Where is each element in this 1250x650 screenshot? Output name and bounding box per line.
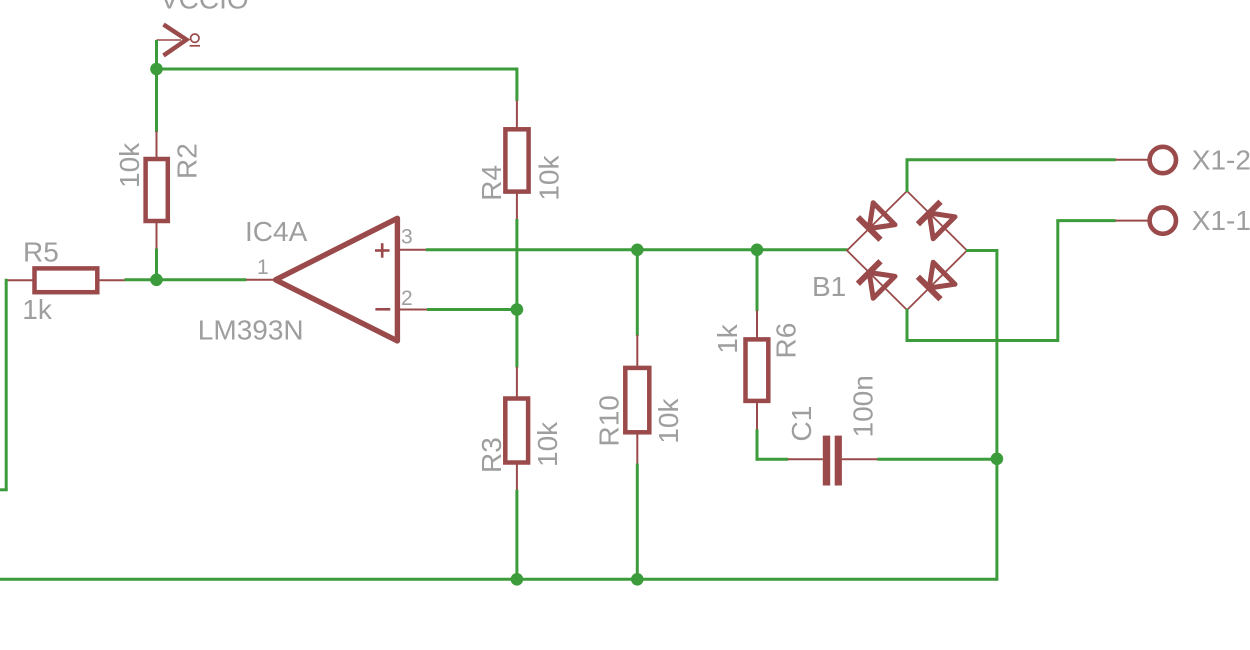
wire C1 right to right vertical: [877, 458, 997, 461]
svg-text:1k: 1k: [712, 323, 743, 354]
wire R4 bottom to junction: [515, 219, 518, 311]
wire bridge right corner: [966, 249, 997, 252]
net VCCIO label: [160, 0, 249, 15]
wire junction to opamp pin1: [155, 278, 247, 281]
diode B1 bottom-right: [918, 262, 955, 299]
label 1k (R6): [712, 323, 743, 354]
wire R5 left down: [5, 279, 8, 490]
label R2: [171, 143, 202, 179]
pin number 1: [257, 256, 269, 279]
resistor R6: [746, 310, 769, 429]
resistor R3: [505, 367, 528, 490]
svg-text:B1: B1: [812, 271, 846, 302]
junction pin3/R6: [751, 244, 764, 257]
label 10k (R10): [653, 398, 684, 444]
junction at VCC/R2: [150, 63, 163, 76]
label 10k (R4): [534, 155, 565, 201]
diode B1 top-right: [918, 202, 955, 239]
wire R10 bottom to rail: [636, 464, 639, 581]
wire right vertical down to rail: [995, 249, 998, 581]
svg-text:C1: C1: [786, 406, 817, 442]
label X1-1: [1192, 205, 1250, 236]
wire opamp pin2 net: [427, 308, 518, 311]
diode B1 bottom-left: [858, 261, 895, 298]
junction C1 net / right vertical: [991, 453, 1004, 466]
wire R6 bottom to C1: [756, 429, 789, 461]
svg-text:VCCIO: VCCIO: [160, 0, 249, 15]
connector pad X1-1: [1115, 207, 1176, 233]
label X1-2: [1192, 145, 1250, 176]
pin number 3: [401, 226, 413, 249]
diode B1 top-left: [858, 203, 895, 240]
svg-text:R2: R2: [171, 143, 202, 179]
svg-text:10k: 10k: [534, 155, 565, 201]
capacitor C1: [788, 436, 878, 486]
op-amp IC4A LM393N: [246, 218, 428, 341]
label R3: [476, 437, 507, 473]
connector pad X1-2: [1115, 147, 1176, 173]
junction pin3/R10: [631, 244, 644, 257]
label R10: [594, 395, 625, 446]
resistor R5: [5, 268, 125, 292]
junction pin2/R4/R3: [511, 303, 524, 316]
svg-text:R3: R3: [476, 437, 507, 473]
wire VCC down to R4 top: [515, 68, 518, 102]
label 1k (R5): [22, 294, 53, 325]
pin number 2: [401, 287, 413, 310]
label LM393N: [198, 315, 304, 346]
label C1: [786, 406, 817, 442]
label R6: [770, 323, 801, 359]
bridge rectifier B1 diamond: [847, 191, 967, 310]
supply symbol VCCIO: [157, 25, 201, 56]
wire R2 bottom to junction: [155, 249, 158, 282]
svg-text:10k: 10k: [653, 398, 684, 444]
label 100n (C1): [848, 375, 879, 437]
svg-text:R4: R4: [476, 165, 507, 201]
label IC4A: [245, 216, 308, 247]
svg-text:2: 2: [401, 287, 413, 310]
junction at R2/R5/opamp: [150, 274, 163, 287]
label R5: [23, 236, 59, 267]
resistor R4: [505, 101, 528, 220]
svg-text:100n: 100n: [848, 375, 879, 437]
label R4: [476, 165, 507, 201]
junction rail/R10: [631, 573, 644, 586]
label 10k (R3): [532, 421, 563, 467]
label B1: [812, 271, 846, 302]
svg-text:10k: 10k: [532, 421, 563, 467]
wire bridge bottom to X1-1: [906, 221, 1116, 342]
wire junction to R3 top: [515, 308, 518, 368]
svg-text:LM393N: LM393N: [198, 315, 304, 346]
svg-text:IC4A: IC4A: [245, 216, 308, 247]
wire R10 top: [636, 248, 639, 336]
wire R3 bottom to rail: [515, 490, 518, 581]
label 10k (R2): [114, 142, 145, 188]
svg-text:R10: R10: [594, 395, 625, 446]
svg-text:3: 3: [401, 226, 413, 249]
wire opamp pin3 net to bridge: [426, 248, 848, 251]
svg-text:R5: R5: [23, 236, 59, 267]
wire bridge top to X1-2: [906, 160, 1116, 192]
junction rail/R3: [511, 573, 524, 586]
svg-text:R6: R6: [770, 323, 801, 359]
wire bottom rail: [0, 578, 997, 581]
resistor R10: [625, 335, 649, 464]
wire VCC vertical at x=156.5: [155, 40, 158, 132]
svg-text:1k: 1k: [22, 294, 53, 325]
wire R5 right to junction: [125, 278, 159, 281]
wire VCC horizontal to R4: [155, 68, 517, 71]
svg-text:X1-1: X1-1: [1192, 205, 1250, 236]
wire R5 left stub exiting canvas: [0, 488, 8, 491]
svg-text:10k: 10k: [114, 142, 145, 188]
svg-text:X1-2: X1-2: [1192, 145, 1250, 176]
wire R6 top: [756, 248, 759, 311]
svg-text:1: 1: [257, 256, 269, 279]
resistor R2: [146, 131, 168, 250]
